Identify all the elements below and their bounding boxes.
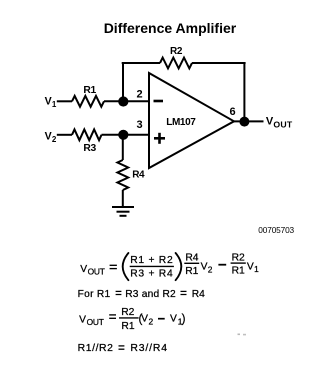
resistor R4 bbox=[117, 160, 145, 190]
node V2 bbox=[45, 131, 57, 144]
svg-text:2: 2 bbox=[208, 265, 213, 275]
svg-text:2: 2 bbox=[149, 316, 154, 326]
svg-text:For R1: For R1 bbox=[78, 289, 111, 300]
node 2 junction bbox=[118, 96, 128, 106]
formula line 3: simplified VOUT bbox=[79, 307, 186, 332]
node 6 junction bbox=[239, 117, 249, 127]
wire output bbox=[234, 120, 264, 122]
op-amp U1 triangle bbox=[149, 73, 234, 168]
svg-text:R1: R1 bbox=[232, 266, 245, 277]
svg-text:R3: R3 bbox=[83, 143, 96, 154]
svg-text:V: V bbox=[45, 95, 52, 107]
svg-text:R1 + R2: R1 + R2 bbox=[130, 255, 173, 266]
wire feedback right vertical bbox=[243, 63, 245, 121]
svg-text:R4: R4 bbox=[185, 253, 198, 264]
ground bbox=[112, 207, 134, 216]
scan speck bbox=[238, 334, 241, 336]
resistor R1 bbox=[72, 85, 104, 107]
svg-text:00705703: 00705703 bbox=[258, 225, 294, 235]
wire feedback left vertical bbox=[122, 63, 124, 101]
formula line 2: matching condition bbox=[78, 289, 206, 300]
svg-text:OUT: OUT bbox=[87, 317, 104, 327]
svg-text:R1: R1 bbox=[121, 321, 134, 332]
formula line 4: parallel resistance condition bbox=[78, 343, 168, 354]
svg-text:V: V bbox=[141, 314, 148, 325]
svg-text:V: V bbox=[80, 264, 87, 275]
node 3 junction bbox=[118, 130, 128, 140]
svg-text:6: 6 bbox=[229, 106, 235, 118]
svg-text:R2: R2 bbox=[170, 46, 183, 57]
svg-text:V: V bbox=[170, 314, 177, 325]
svg-text:R3 + R4: R3 + R4 bbox=[130, 269, 173, 280]
svg-text:V: V bbox=[201, 261, 208, 272]
op-amp non-inverting input marker bbox=[154, 133, 165, 144]
resistor R3 bbox=[72, 129, 102, 153]
svg-text:OUT: OUT bbox=[88, 266, 105, 276]
node VOUT bbox=[266, 116, 293, 130]
svg-text:OUT: OUT bbox=[273, 119, 292, 129]
wire node 3 down to R4 bbox=[122, 135, 124, 160]
svg-text:3: 3 bbox=[136, 119, 142, 131]
scan speck bbox=[243, 334, 246, 336]
wire R4 to ground bbox=[122, 190, 124, 206]
resistor R2 bbox=[160, 46, 192, 69]
svg-text:V: V bbox=[79, 315, 86, 326]
op-amp inverting input marker bbox=[154, 100, 164, 103]
svg-text:2: 2 bbox=[136, 89, 142, 101]
svg-text:R3//R4: R3//R4 bbox=[130, 343, 167, 354]
svg-text:V: V bbox=[247, 261, 254, 272]
svg-text:R1: R1 bbox=[185, 266, 198, 277]
formula line 1: VOUT general expression bbox=[80, 253, 259, 281]
svg-text:R3 and R2: R3 and R2 bbox=[125, 289, 176, 300]
wire feedback top right bbox=[192, 62, 246, 64]
svg-text:): ) bbox=[182, 314, 186, 326]
svg-text:R2: R2 bbox=[121, 307, 134, 318]
svg-text:R2: R2 bbox=[232, 253, 245, 264]
wire V2 lead bbox=[57, 134, 72, 136]
svg-text:V: V bbox=[45, 131, 52, 143]
svg-text:1: 1 bbox=[52, 100, 57, 109]
svg-text:R4: R4 bbox=[192, 289, 205, 300]
svg-text:Difference Amplifier: Difference Amplifier bbox=[104, 20, 237, 36]
wire V1 lead bbox=[57, 100, 72, 102]
svg-text:1: 1 bbox=[254, 264, 259, 274]
wire R3 to op-amp pin 3 bbox=[102, 134, 150, 136]
node V1 bbox=[45, 95, 57, 108]
svg-text:R1//R2: R1//R2 bbox=[78, 343, 114, 354]
svg-text:R4: R4 bbox=[132, 169, 145, 180]
wire feedback top left bbox=[122, 62, 160, 64]
svg-text:LM107: LM107 bbox=[166, 117, 196, 128]
wire R1 to op-amp pin 2 bbox=[104, 100, 149, 102]
svg-text:R1: R1 bbox=[83, 85, 96, 96]
svg-text:2: 2 bbox=[52, 135, 57, 144]
